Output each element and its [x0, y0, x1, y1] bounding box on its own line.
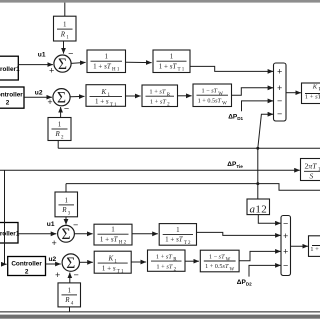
- hydro governor block K1/(1+sT1) area2: [94, 251, 131, 274]
- gain block 1/R4: [58, 283, 81, 307]
- svg-text:+: +: [52, 239, 57, 249]
- svg-text:1: 1: [63, 21, 67, 29]
- gain block a12: [247, 199, 270, 215]
- wire SP2 to power system KP2: [291, 245, 308, 247]
- wire a12 input from tap: [257, 148, 259, 199]
- svg-text:+: +: [55, 271, 60, 281]
- controller block Controller1 (area2, cut by left edge): [0, 223, 20, 244]
- power system block KP1/(1+sT_P1) cut at right edge: [302, 83, 320, 104]
- svg-text:−: −: [283, 219, 288, 229]
- wire droop comp to hydro turbine W2: [185, 260, 199, 262]
- wire Controller1 to sum S3: [18, 233, 56, 235]
- wire a12 to summer SP2 (-): [258, 215, 280, 224]
- tie-line block 2piT12/S cut at right edge: [301, 159, 320, 181]
- summing junction S3: [58, 225, 75, 243]
- hydro turbine block (1-sT_W)/(1+0.5sT_W) area2: [200, 250, 239, 272]
- wire f2 feedback line L4: [0, 311, 320, 313]
- wire 1/R4 down to f2 feedback line: [69, 307, 71, 312]
- svg-text:u1: u1: [38, 52, 46, 59]
- svg-text:u2: u2: [49, 256, 57, 263]
- turbine block 1/(1+sT_T2): [159, 224, 196, 246]
- svg-text:a12: a12: [249, 203, 267, 215]
- svg-text:+: +: [49, 67, 54, 77]
- wire sum S4 feedback from 1/R4: [69, 273, 71, 283]
- droop compensation block (1+sT_R)/(1+sT_2) area2: [148, 250, 186, 273]
- controller block Controller 2 (area2): [8, 257, 46, 276]
- svg-text:2: 2: [25, 268, 29, 275]
- wire top feed into 1/R1: [64, 3, 66, 17]
- svg-text:1: 1: [65, 196, 69, 204]
- svg-text:Controller1: Controller1: [0, 231, 20, 238]
- wire hydro turbine W1 to summer SP1 (+): [232, 88, 274, 95]
- power system block KP2/(1+sT_P2) cut at right edge: [309, 236, 320, 257]
- wire 1/R2 down to f1 feedback line: [57, 141, 59, 149]
- hydro governor block K1/(1+sT1): [86, 85, 126, 108]
- junction a12 tap on L3: [256, 182, 259, 185]
- svg-text:−: −: [283, 261, 288, 271]
- wire 1/R1 to sum S1: [63, 41, 65, 54]
- wire Controller2 to sum S4: [46, 263, 61, 265]
- summing junction S4: [62, 254, 79, 272]
- wire f1 feedback line L1: [58, 147, 320, 149]
- wire 1/R3 to sum S3: [65, 217, 67, 225]
- summing junction S1: [54, 55, 71, 73]
- svg-text:−: −: [74, 271, 79, 281]
- svg-text:u2: u2: [35, 89, 43, 96]
- wire K1 to droop compensation area2: [131, 261, 146, 263]
- junction on tie-line tap: [256, 147, 259, 150]
- wire H1 to turbine T1: [126, 61, 152, 63]
- svg-text:1: 1: [68, 286, 72, 294]
- svg-text:2: 2: [6, 100, 10, 107]
- bottom border bar: [0, 315, 320, 319]
- svg-text:u1: u1: [47, 221, 55, 228]
- wire sum S4 to hydro governor K1 area2: [80, 261, 93, 263]
- governor block 1/(1+sT_H1): [87, 50, 126, 73]
- summing junction S2: [53, 89, 70, 107]
- svg-text:+: +: [277, 84, 282, 94]
- wire turbine T2 to summer SP2 (+): [197, 232, 281, 235]
- svg-text:+: +: [283, 232, 288, 242]
- wire droop comp to hydro turbine W1: [178, 95, 192, 97]
- wire K1 to droop compensation: [126, 95, 141, 97]
- svg-text:1: 1: [58, 120, 62, 128]
- svg-text:Σ: Σ: [66, 255, 75, 272]
- svg-text:1: 1: [111, 226, 115, 234]
- controller block Controller1 (area1, cut by left edge): [0, 56, 20, 80]
- wire sum S2 feedback from 1/R2: [60, 107, 62, 118]
- wire sum S2 to hydro governor K1: [70, 95, 84, 97]
- svg-text:Σ: Σ: [61, 226, 70, 243]
- governor block 1/(1+sT_H2): [94, 224, 132, 245]
- wire dP_D1 into summer SP1 (-): [242, 101, 274, 111]
- wire sum S3 to governor H2: [75, 233, 93, 235]
- wire SP1 to power system KP1: [286, 92, 301, 94]
- wire f2 feedback line L3: [66, 184, 320, 191]
- svg-text:−: −: [64, 104, 69, 114]
- wire Controller2 to sum S2: [24, 96, 52, 98]
- wire hydro turbine W2 to summer SP2 (+): [239, 251, 281, 260]
- summer block SP1 (area1 power summer): [274, 63, 287, 121]
- turbine block 1/(1+sT_T1): [153, 50, 190, 73]
- svg-text:1: 1: [170, 53, 174, 61]
- gain block 1/R3: [55, 192, 78, 217]
- wire tie-line diagonal to summer SP1 (-): [258, 114, 273, 148]
- svg-text:Controller1: Controller1: [0, 66, 20, 73]
- wire tie-line input line L2: [0, 169, 300, 171]
- wire H2 to turbine T2: [132, 233, 158, 235]
- svg-text:1: 1: [176, 226, 180, 234]
- svg-text:−: −: [277, 110, 282, 120]
- wire dP_D2 into summer SP2 (-): [249, 265, 281, 276]
- controller block Controller 2 (area1, cut by left edge): [0, 87, 24, 108]
- wire sum S1 to governor H1: [71, 62, 85, 63]
- svg-text:S: S: [310, 171, 314, 180]
- summer block SP2 (area2 power summer): [281, 216, 291, 276]
- svg-text:−: −: [277, 97, 282, 107]
- gain block 1/R2: [48, 118, 71, 141]
- wire turbine T1 to summer SP1 (+): [190, 66, 273, 71]
- svg-text:Σ: Σ: [58, 56, 67, 73]
- svg-text:+: +: [47, 98, 52, 108]
- svg-text:1: 1: [105, 53, 109, 61]
- svg-text:Controller: Controller: [0, 92, 23, 99]
- droop compensation block (1+sT_R)/(1+sT_2): [142, 85, 178, 108]
- svg-text:+: +: [283, 247, 288, 257]
- top border bar: [0, 0, 320, 3]
- wire Controller1 to sum S1: [18, 64, 53, 66]
- svg-text:+: +: [277, 68, 282, 78]
- wire L2 drop to Controller 2 area2: [5, 170, 7, 264]
- svg-text:Controller: Controller: [11, 260, 42, 267]
- hydro turbine block (1-sT_W)/(1+0.5sT_W): [193, 84, 232, 107]
- wire L3 into 1/R3: [65, 184, 67, 192]
- gain block 1/R1: [54, 16, 77, 41]
